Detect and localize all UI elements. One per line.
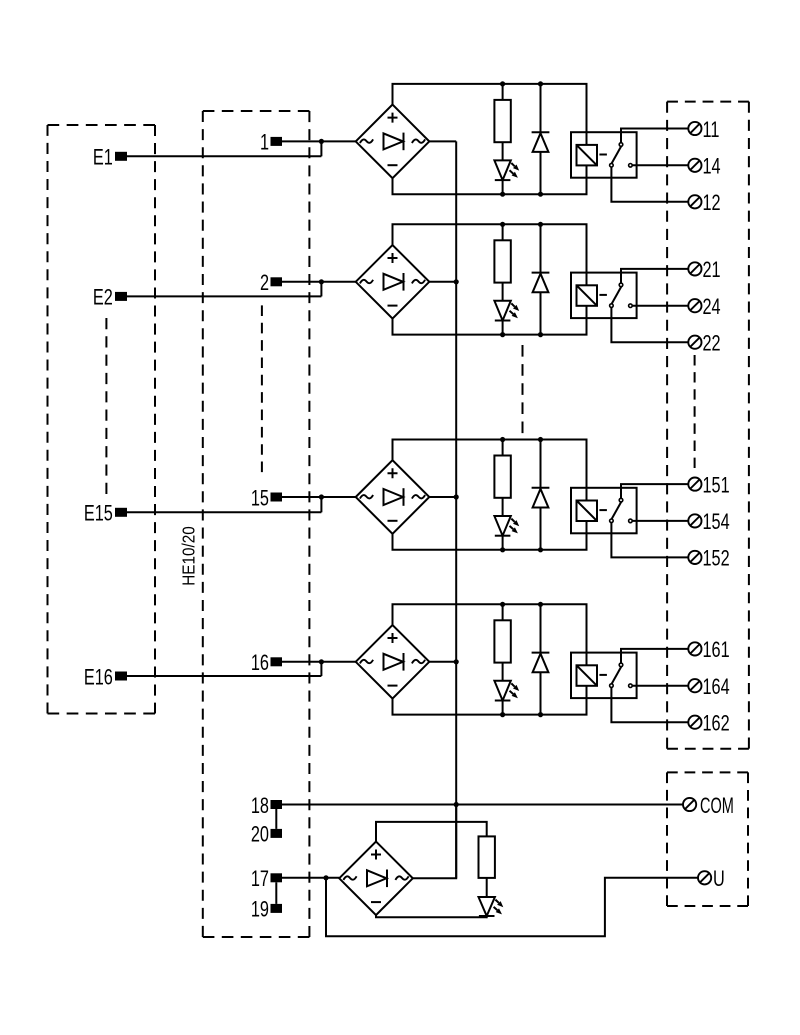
LED H2: [494, 301, 519, 321]
wire contact to terminal 11: [621, 129, 688, 143]
svg-text:12: 12: [703, 191, 721, 216]
svg-text:154: 154: [703, 510, 730, 535]
continuation dashed line (E3..E14): [105, 318, 107, 494]
svg-text:14: 14: [703, 154, 721, 179]
wire DC+ top rail: [393, 224, 587, 285]
wire bridge AC to common bus: [429, 661, 456, 663]
relay contact K2: [610, 283, 633, 307]
wire contact to terminal 22: [611, 307, 688, 342]
wire pin 17-19 strap: [275, 882, 277, 904]
wire contact to terminal 24: [632, 305, 688, 307]
bridge rectifier G1: [356, 105, 430, 179]
wire DC- bottom rail: [393, 521, 587, 550]
wire pin 1 to bridge: [282, 140, 356, 142]
wire resistor to LED: [502, 498, 504, 516]
node bus junction: [454, 494, 459, 499]
node junction pin 16 / E16: [319, 659, 324, 664]
wire E2 to junction: [127, 282, 321, 297]
output terminal 12: [688, 191, 720, 216]
resistor R1: [494, 100, 510, 142]
relay K2: [571, 273, 637, 319]
svg-text:19: 19: [251, 897, 269, 922]
wire bridge AC to common bus: [429, 140, 456, 142]
relay K4: [571, 653, 637, 699]
wire pin 18-20 strap: [275, 809, 277, 829]
connector pin 17: [251, 867, 282, 892]
diode V3: [532, 488, 550, 508]
wire LED to DC-: [376, 915, 487, 917]
wire pin 18 to COM: [282, 804, 683, 806]
continuation dashed line (channels 3..14): [522, 345, 524, 433]
relay contact K1: [610, 143, 633, 167]
continuation dashed line (pins 3..14): [261, 305, 263, 472]
svg-text:20: 20: [251, 822, 269, 847]
diode V1: [532, 132, 550, 152]
resistor R4: [494, 620, 510, 662]
wire rail to diode: [540, 224, 542, 272]
input terminal E2: [93, 285, 127, 310]
svg-text:162: 162: [703, 711, 730, 736]
wire resistor to LED: [502, 142, 504, 160]
wire resistor to LED: [502, 283, 504, 301]
wire DC+ top rail: [393, 440, 587, 501]
wire pin 2 to bridge: [282, 281, 356, 283]
output terminal U: [698, 867, 725, 892]
bridge rectifier G3: [356, 460, 430, 534]
input terminal E16: [84, 665, 127, 690]
wire bridge AC to bus: [413, 805, 456, 879]
svg-text:U: U: [713, 867, 725, 892]
relay contact K3: [610, 498, 633, 522]
output terminal 22: [688, 331, 720, 356]
wire contact to terminal 164: [632, 685, 688, 687]
node junction pin 2 / E2: [319, 279, 324, 284]
wire DC+ top rail: [393, 84, 587, 145]
continuation dashed line (outputs 3x..14x): [694, 355, 696, 468]
output terminal 11: [688, 117, 719, 142]
svg-text:18: 18: [251, 793, 269, 818]
resistor R3: [494, 456, 510, 498]
node bus junction: [454, 659, 459, 664]
resistor R5: [479, 836, 495, 878]
wire rail to resistor: [502, 84, 504, 100]
output terminal 164: [688, 675, 730, 700]
relay K3: [571, 488, 637, 534]
connector pin 16: [251, 651, 282, 676]
node top rail junctions: [500, 602, 543, 607]
svg-text:15: 15: [251, 486, 269, 511]
node bus junction: [454, 279, 459, 284]
wire E16 to junction: [127, 662, 321, 676]
svg-text:17: 17: [251, 867, 269, 892]
node top rail junctions: [500, 222, 543, 227]
wire contact to terminal 161: [621, 649, 688, 663]
wire rail to diode: [540, 604, 542, 652]
svg-text:E15: E15: [84, 501, 113, 526]
wire DC+ top rail: [393, 604, 587, 665]
output terminal 152: [688, 546, 729, 571]
relay contact K4: [610, 663, 633, 687]
input terminal E1: [93, 145, 127, 170]
output terminal 151: [688, 473, 729, 498]
wire pin 17 to U terminal: [326, 878, 698, 937]
wire LED to rail: [502, 536, 504, 550]
wire LED to rail: [502, 701, 504, 715]
wire LED to rail: [502, 321, 504, 335]
label HE10/20: [178, 526, 198, 585]
output terminal 21: [688, 258, 720, 283]
node pin 17 junction: [323, 875, 328, 880]
wire diode to rail: [540, 672, 542, 714]
bridge rectifier G5: [339, 842, 413, 916]
bridge rectifier G4: [356, 625, 430, 699]
svg-text:E1: E1: [93, 145, 113, 170]
wire rail to diode: [540, 84, 542, 132]
wire contact to terminal 12: [611, 167, 688, 202]
node bottom rail junctions: [500, 712, 543, 717]
wire contact to terminal 152: [611, 523, 688, 558]
wire pin 16 to bridge: [282, 661, 356, 663]
output terminal COM: [683, 793, 734, 818]
wire resistor to LED: [486, 878, 488, 897]
svg-text:22: 22: [703, 331, 721, 356]
resistor R2: [494, 240, 510, 282]
wire DC- bottom rail: [393, 306, 587, 335]
wire diode to rail: [540, 292, 542, 334]
svg-text:161: 161: [703, 638, 730, 663]
wire contact to terminal 14: [632, 164, 688, 166]
svg-text:16: 16: [251, 651, 269, 676]
svg-text:164: 164: [703, 675, 730, 700]
wire resistor to LED: [502, 663, 504, 681]
wire rail to resistor: [502, 440, 504, 456]
connector pin 20: [251, 822, 282, 847]
LED H1: [494, 160, 519, 180]
wire contact to terminal 162: [611, 687, 688, 722]
connector pin 18: [251, 793, 282, 818]
node junction pin 15 / E15: [319, 494, 324, 499]
wire common bus: [455, 141, 457, 878]
node bottom rail junctions: [500, 547, 543, 552]
bridge rectifier G2: [356, 245, 430, 319]
output terminal 14: [688, 154, 721, 179]
svg-text:1: 1: [260, 130, 269, 155]
svg-text:11: 11: [703, 117, 720, 142]
wire pin 15 to bridge: [282, 496, 356, 498]
wire DC+ to resistor: [376, 822, 487, 842]
output terminals dashed enclosure: [667, 102, 749, 749]
connector HE10/20 dashed enclosure: [203, 111, 310, 937]
node bottom rail junctions: [500, 332, 543, 337]
wire contact to terminal 151: [621, 484, 688, 498]
wire contact to terminal 21: [621, 269, 688, 283]
LED H5: [479, 897, 504, 916]
node bottom rail junctions: [500, 192, 543, 197]
svg-text:HE10/20: HE10/20: [178, 526, 198, 585]
wire E1 to junction: [127, 141, 321, 156]
svg-text:21: 21: [703, 258, 721, 283]
output terminal 154: [688, 510, 730, 535]
wire diode to rail: [540, 508, 542, 550]
node top rail junctions: [500, 437, 543, 442]
wire E15 to junction: [127, 497, 321, 512]
svg-text:COM: COM: [700, 793, 734, 818]
output terminal 161: [688, 638, 729, 663]
svg-text:E2: E2: [93, 285, 113, 310]
wire bridge AC to common bus: [429, 281, 456, 283]
wire DC- bottom rail: [393, 686, 587, 715]
wire DC- bottom rail: [393, 165, 587, 194]
svg-text:152: 152: [703, 546, 730, 571]
wire LED to rail: [502, 180, 504, 194]
COM/U terminals dashed enclosure: [667, 772, 748, 906]
wire pin 17 to bridge: [282, 877, 339, 879]
diode V4: [532, 653, 550, 673]
node bus to COM junction: [454, 802, 459, 807]
svg-text:E16: E16: [84, 665, 113, 690]
connector pin 15: [251, 486, 282, 511]
node junction pin 1 / E1: [319, 139, 324, 144]
node top rail junctions: [500, 81, 543, 86]
wire diode to rail: [540, 152, 542, 194]
input module dashed enclosure (E inputs): [48, 125, 156, 714]
relay K1: [571, 132, 637, 178]
svg-text:2: 2: [260, 271, 269, 296]
LED H3: [494, 516, 519, 536]
LED H4: [494, 681, 519, 701]
wire rail to resistor: [502, 224, 504, 240]
connector pin 1: [260, 130, 282, 155]
wire bridge AC to common bus: [429, 496, 456, 498]
input terminal E15: [84, 501, 127, 526]
output terminal 162: [688, 711, 729, 736]
diode V2: [532, 273, 550, 293]
wire contact to terminal 154: [632, 520, 688, 522]
connector pin 19: [251, 897, 282, 922]
svg-text:24: 24: [703, 295, 721, 320]
svg-text:151: 151: [703, 473, 730, 498]
wire rail to resistor: [502, 604, 504, 620]
wire rail to diode: [540, 440, 542, 488]
connector pin 2: [260, 271, 282, 296]
output terminal 24: [688, 295, 721, 320]
